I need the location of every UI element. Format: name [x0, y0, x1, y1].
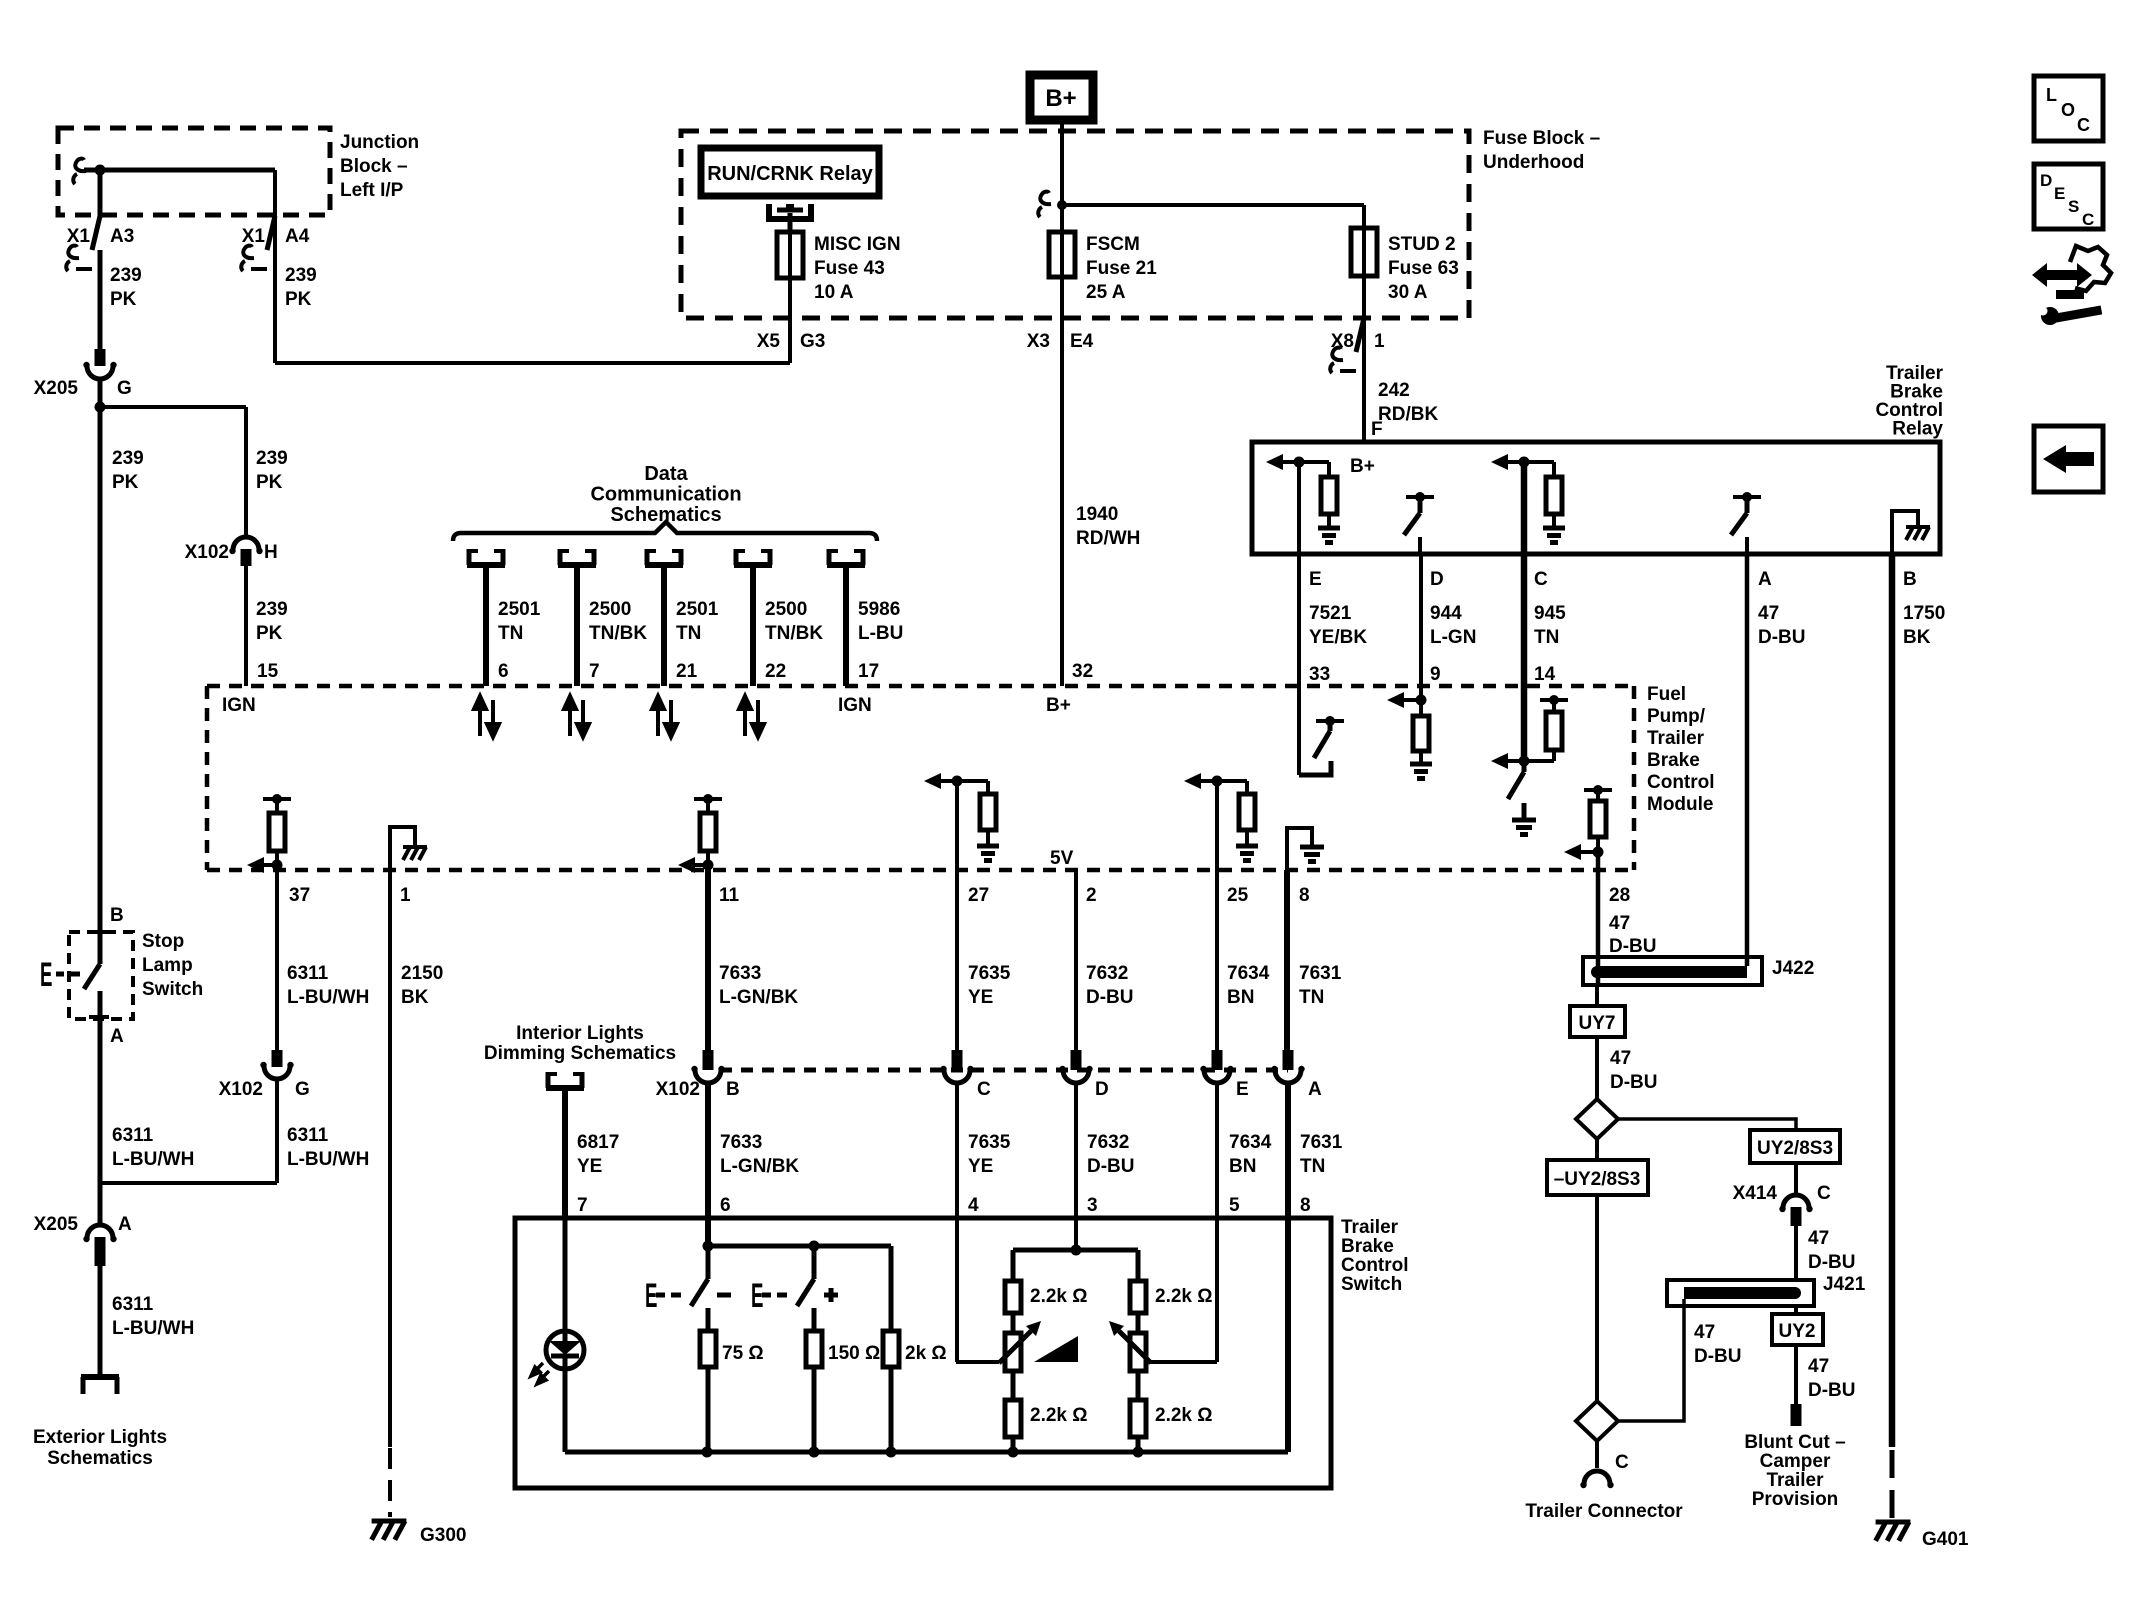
stub resistor-gnd C	[1552, 514, 1556, 528]
svg-text:X205: X205	[34, 378, 79, 399]
svg-text:C: C	[1817, 1183, 1831, 1204]
wire below X102 G	[275, 1078, 279, 1183]
stub resistor pin28	[1596, 837, 1600, 852]
wire inside stop lamp	[98, 932, 103, 964]
stub pin27 gnd	[986, 830, 990, 846]
option box UY2/8S3	[1750, 1130, 1840, 1163]
svg-text:6311: 6311	[112, 1294, 154, 1315]
svg-text:17: 17	[858, 661, 879, 682]
svg-text:27: 27	[968, 885, 989, 906]
wire into STUD2 fuse	[1362, 205, 1366, 228]
svg-text:2500: 2500	[589, 599, 631, 620]
svg-text:Trailer: Trailer	[1647, 728, 1705, 749]
in-line connector X102 H	[233, 537, 259, 550]
svg-text:J421: J421	[1823, 1274, 1866, 1295]
svg-text:B: B	[726, 1079, 740, 1100]
relay coil resistor (E)	[1321, 477, 1337, 514]
fork terminal data line 22	[734, 549, 772, 565]
svg-text:150 Ω: 150 Ω	[828, 1343, 880, 1364]
svg-text:TN: TN	[498, 623, 523, 644]
relay switch contact (D)	[1404, 492, 1434, 535]
E dashes stop lamp	[56, 972, 80, 977]
option box -UY2/8S3	[1547, 1160, 1648, 1195]
wire A4 to fuse43	[275, 361, 790, 365]
data arrows pin row x=745	[739, 696, 764, 737]
wire to 150 ohm	[812, 1308, 817, 1331]
resistor 2.2k lower-left	[1005, 1400, 1021, 1437]
junction dot rail2-75	[702, 1447, 713, 1458]
connector row dashed line	[720, 1068, 1288, 1073]
splice diamond S2	[1576, 1401, 1618, 1441]
chassis ground pin 1	[403, 847, 427, 860]
svg-text:Relay: Relay	[1892, 419, 1943, 440]
wire J421 to UY2	[1794, 1306, 1798, 1314]
svg-text:22: 22	[765, 661, 786, 682]
svg-text:L-GN/BK: L-GN/BK	[720, 1156, 799, 1177]
svg-text:UY2/8S3: UY2/8S3	[1757, 1138, 1833, 1159]
svg-text:PK: PK	[285, 289, 312, 310]
fuse STUD 2 Fuse 63	[1351, 228, 1377, 276]
floating contact pin 11	[694, 794, 722, 804]
svg-text:E: E	[751, 1276, 763, 1315]
wire coil E	[1283, 460, 1329, 464]
svg-text:PK: PK	[256, 472, 283, 493]
wire UY7 to splice diamond	[1595, 1037, 1599, 1099]
wire pin 28 down to J422	[1596, 852, 1601, 985]
fork terminal exterior lights	[81, 1377, 119, 1394]
connector B (switch harness)	[695, 1070, 721, 1083]
arrow line pin 14	[1508, 759, 1554, 763]
svg-text:Lamp: Lamp	[142, 955, 193, 976]
svg-text:C: C	[1534, 569, 1548, 590]
ground relay coil E	[1318, 528, 1340, 543]
svg-text:IGN: IGN	[838, 695, 872, 716]
svg-text:L-BU: L-BU	[858, 623, 903, 644]
svg-text:Stop: Stop	[142, 931, 184, 952]
svg-text:TN: TN	[1300, 1156, 1325, 1177]
wire 2.2kLR to rail	[1136, 1437, 1141, 1452]
junction dot pin 14	[1519, 756, 1530, 767]
svg-text:UY2: UY2	[1779, 1321, 1816, 1342]
connector stub X205-G	[95, 349, 106, 366]
svg-text:L: L	[2046, 85, 2057, 105]
dashed wire to G300	[388, 1448, 392, 1517]
wire 7633 into switch	[705, 1082, 711, 1246]
stub pin9 gnd	[1419, 751, 1423, 764]
plus switch blade	[797, 1279, 814, 1306]
Trailer Brake Control Relay box	[1252, 442, 1940, 554]
svg-text:239: 239	[256, 448, 288, 469]
svg-text:X3: X3	[1027, 331, 1050, 352]
potentiometer right	[1130, 1333, 1146, 1371]
module resistor pin 9	[1413, 716, 1429, 751]
wire pin 25 down	[1215, 781, 1219, 1050]
back arrow	[2043, 445, 2094, 473]
svg-text:BN: BN	[1229, 1156, 1256, 1177]
stop lamp switch blade	[84, 964, 100, 989]
connector stub (E)	[1212, 1050, 1223, 1070]
DESC legend box	[2034, 164, 2103, 229]
svg-text:S: S	[2068, 197, 2079, 216]
svg-text:BN: BN	[1227, 987, 1254, 1008]
data wire to pin 7	[574, 565, 580, 686]
wire 2150 BK down to G300	[388, 870, 392, 1447]
svg-text:47: 47	[1610, 1048, 1631, 1069]
svg-text:STUD 2: STUD 2	[1388, 234, 1456, 255]
junction dot rail2-2k	[886, 1447, 897, 1458]
svg-text:30 A: 30 A	[1388, 282, 1428, 303]
svg-text:Trailer: Trailer	[1766, 1470, 1824, 1491]
svg-text:Pump/: Pump/	[1647, 706, 1706, 727]
svg-text:2500: 2500	[765, 599, 807, 620]
svg-text:21: 21	[676, 661, 698, 682]
svg-text:1: 1	[1374, 331, 1385, 352]
ramp triangle	[1034, 1336, 1078, 1362]
data wire to pin 6	[483, 565, 489, 686]
svg-text:D-BU: D-BU	[1610, 1072, 1658, 1093]
svg-text:E: E	[1309, 569, 1322, 590]
svg-text:RD/BK: RD/BK	[1378, 404, 1438, 425]
svg-text:PK: PK	[256, 623, 283, 644]
in-line connector X414 C	[1783, 1195, 1809, 1208]
ground pin 27	[977, 846, 999, 861]
wire 7521 YE/BK	[1297, 554, 1301, 686]
svg-text:A: A	[118, 1214, 132, 1235]
ground pin 25	[1236, 846, 1258, 861]
svg-text:2501: 2501	[498, 599, 541, 620]
svg-text:A: A	[110, 1026, 124, 1047]
svg-text:Left I/P: Left I/P	[340, 180, 404, 201]
stub to resistor pin11	[706, 799, 710, 813]
svg-text:E: E	[40, 955, 52, 994]
junction dot rail-plus	[809, 1241, 820, 1252]
module switch blade pin 14	[1508, 772, 1524, 799]
wire below X205 G	[98, 378, 103, 407]
stop lamp switch dashed box	[69, 932, 133, 1019]
exchange/service icon	[2032, 263, 2092, 299]
svg-text:D-BU: D-BU	[1808, 1380, 1856, 1401]
hook X8-1	[1332, 348, 1343, 361]
arrow line pin 37	[264, 863, 277, 867]
fuse block underhood - dashed outline	[681, 131, 1469, 318]
svg-text:Fuse 63: Fuse 63	[1388, 258, 1459, 279]
svg-text:YE: YE	[968, 987, 993, 1008]
svg-text:47: 47	[1694, 1322, 1715, 1343]
stub to resistor pin14	[1552, 700, 1556, 712]
data wire to pin 22	[750, 565, 756, 686]
svg-text:Exterior Lights: Exterior Lights	[33, 1427, 167, 1448]
svg-text:L-GN/BK: L-GN/BK	[719, 987, 798, 1008]
svg-text:2150: 2150	[401, 963, 443, 984]
svg-text:MISC IGN: MISC IGN	[814, 234, 901, 255]
svg-text:7633: 7633	[720, 1132, 762, 1153]
minus sign	[717, 1293, 731, 1298]
svg-text:BK: BK	[401, 987, 429, 1008]
svg-text:33: 33	[1309, 664, 1330, 685]
wire 2kohm to rail	[889, 1367, 894, 1452]
floating contact pin 37	[263, 794, 291, 804]
wire pin 2 down	[1074, 870, 1078, 1050]
connector stub (A)	[1283, 1050, 1294, 1070]
connector stub X205-A	[95, 1237, 106, 1266]
svg-text:Brake: Brake	[1647, 750, 1700, 771]
svg-text:X102: X102	[185, 542, 229, 563]
wire minus switch upper	[706, 1246, 711, 1279]
svg-text:X1: X1	[67, 226, 91, 247]
stub to resistor pin28	[1596, 790, 1600, 801]
junction dot pin 25	[1212, 776, 1223, 787]
B+ power box	[1030, 75, 1093, 120]
svg-text:Data: Data	[644, 463, 688, 485]
resistor 2.2k lower-right	[1130, 1400, 1146, 1437]
LED indicator	[546, 1331, 584, 1369]
svg-text:25: 25	[1227, 885, 1249, 906]
wire 239 PK down to stop lamp switch	[98, 407, 103, 932]
connector stub X414-C	[1791, 1207, 1802, 1226]
svg-text:X205: X205	[34, 1214, 79, 1235]
wire relay pin C	[1521, 462, 1528, 554]
hook X1-A3	[68, 246, 79, 259]
svg-text:Junction: Junction	[340, 132, 419, 153]
wire UY2/8S3 to X414	[1794, 1163, 1798, 1196]
connector E (switch harness)	[1204, 1070, 1230, 1083]
junction dot relay E	[1294, 457, 1305, 468]
junction dot pin 28	[1593, 847, 1604, 858]
svg-text:A: A	[1308, 1079, 1322, 1100]
svg-text:2.2k Ω: 2.2k Ω	[1030, 1405, 1088, 1426]
chassis ground G300	[372, 1521, 407, 1540]
svg-text:239: 239	[112, 448, 144, 469]
junction dot branch	[95, 402, 106, 413]
data wire to pin 17	[843, 565, 849, 686]
svg-text:IGN: IGN	[222, 695, 256, 716]
svg-text:X102: X102	[219, 1079, 263, 1100]
ground pin 9	[1410, 764, 1432, 779]
svg-text:2.2k Ω: 2.2k Ω	[1030, 1286, 1088, 1307]
svg-text:E4: E4	[1070, 331, 1094, 352]
in-line connector X102 G	[264, 1066, 290, 1079]
svg-text:G300: G300	[420, 1525, 466, 1546]
svg-text:G3: G3	[800, 331, 825, 352]
wire LED to rail	[563, 1369, 568, 1452]
data arrows pin row x=480	[474, 696, 499, 737]
data wire to pin 21	[661, 565, 667, 686]
module resistor pin 27	[980, 794, 996, 830]
svg-text:15: 15	[257, 661, 279, 682]
svg-text:D-BU: D-BU	[1609, 936, 1657, 957]
wire to X102 G	[275, 1050, 279, 1066]
svg-text:10 A: 10 A	[814, 282, 854, 303]
svg-text:239: 239	[256, 599, 288, 620]
svg-text:E: E	[645, 1276, 657, 1315]
svg-text:Control: Control	[1647, 772, 1715, 793]
svg-text:7: 7	[577, 1195, 588, 1216]
wire pin14 internal	[1521, 686, 1528, 761]
wire 239 PK down	[98, 250, 103, 350]
svg-text:2.2k Ω: 2.2k Ω	[1155, 1286, 1213, 1307]
svg-text:Switch: Switch	[1341, 1274, 1402, 1295]
svg-text:X1: X1	[242, 226, 266, 247]
wire relay to fuse 43	[788, 213, 793, 232]
arrow line pin 25	[1201, 779, 1247, 783]
data comm brace	[453, 522, 877, 541]
wire A4 down	[273, 170, 277, 363]
E dashes plus	[762, 1293, 787, 1298]
svg-text:25 A: 25 A	[1086, 282, 1126, 303]
junction dot rail2-right pot	[1133, 1447, 1144, 1458]
arrow line pin 28	[1581, 850, 1598, 854]
svg-text:F: F	[1371, 419, 1383, 440]
wire diamond1 to -UY2/8S3	[1595, 1139, 1599, 1160]
wire 239 PK to module pin 15	[244, 566, 248, 686]
svg-text:Camper: Camper	[1760, 1451, 1831, 1472]
svg-text:Dimming Schematics: Dimming Schematics	[484, 1043, 676, 1064]
svg-text:B: B	[1903, 569, 1917, 590]
svg-text:D-BU: D-BU	[1758, 627, 1806, 648]
svg-text:YE: YE	[577, 1156, 602, 1177]
option box UY2	[1772, 1314, 1823, 1345]
svg-text:Underhood: Underhood	[1483, 152, 1584, 173]
Fuel Pump Trailer Brake Control Module dashed box	[207, 686, 1634, 870]
svg-text:Communication: Communication	[590, 484, 741, 506]
svg-text:Fuse Block –: Fuse Block –	[1483, 128, 1600, 149]
svg-text:D-BU: D-BU	[1694, 1346, 1742, 1367]
resistor 2.2k upper-right	[1130, 1281, 1146, 1313]
resistor 2.2k upper-left	[1005, 1281, 1021, 1313]
svg-text:7632: 7632	[1087, 1132, 1129, 1153]
wire pin 11 down	[705, 865, 711, 1050]
svg-text:Interior Lights: Interior Lights	[516, 1023, 644, 1044]
svg-text:D: D	[1430, 569, 1444, 590]
svg-text:32: 32	[1072, 661, 1093, 682]
module resistor pin 25	[1239, 794, 1255, 830]
svg-text:14: 14	[1534, 664, 1556, 685]
junction dot B+/STUD2	[1057, 200, 1067, 210]
wire J422 to UY7	[1595, 985, 1599, 1006]
stub resistor pin37	[275, 851, 279, 865]
svg-text:Provision: Provision	[1752, 1489, 1839, 1510]
wire UY2 to blunt cut	[1794, 1345, 1798, 1404]
svg-text:X102: X102	[656, 1079, 700, 1100]
wire pin 8 to internal ground	[1287, 828, 1312, 870]
svg-text:1: 1	[400, 885, 411, 906]
svg-text:A: A	[1758, 569, 1772, 590]
wire wiper to pin5	[1149, 1360, 1217, 1364]
wire relay pin B to ground	[1892, 511, 1918, 554]
svg-text:L-BU/WH: L-BU/WH	[112, 1149, 194, 1170]
hook at FSCM junction	[1040, 192, 1051, 205]
wire to STUD 2 fuse	[1062, 203, 1364, 207]
fork terminal data line 6	[467, 549, 505, 565]
wire branch right	[100, 405, 246, 409]
svg-text:X5: X5	[757, 331, 781, 352]
svg-text:Switch: Switch	[142, 979, 203, 1000]
wire diamond2 to trailer connector	[1595, 1441, 1599, 1468]
splice diamond S1	[1576, 1099, 1618, 1139]
wire pin 1 to internal ground	[390, 827, 415, 870]
connector D (switch harness)	[1063, 1070, 1089, 1083]
junction dot relay C	[1519, 457, 1530, 468]
svg-text:239: 239	[285, 265, 317, 286]
wire B+ down	[1060, 120, 1064, 232]
wire 239 PK to X102 H	[244, 407, 248, 538]
svg-text:UY7: UY7	[1579, 1013, 1616, 1034]
module switch contact (pin 33)	[1299, 716, 1344, 775]
resistor 150 ohm	[806, 1331, 822, 1367]
svg-text:Brake: Brake	[1341, 1236, 1394, 1257]
in-line connector X205 G	[87, 366, 113, 379]
svg-text:C: C	[1615, 1452, 1629, 1473]
tick X8-1	[1340, 369, 1356, 373]
svg-text:Fuse 43: Fuse 43	[814, 258, 885, 279]
wire diamond to UY2/8S3	[1618, 1119, 1796, 1130]
junction dot pin 11	[703, 860, 714, 871]
svg-text:Trailer: Trailer	[1341, 1217, 1399, 1238]
back-arrow legend box	[2034, 426, 2103, 492]
svg-text:–UY2/8S3: –UY2/8S3	[1554, 1169, 1641, 1190]
splice pack J422	[1583, 957, 1762, 985]
svg-text:6: 6	[498, 661, 509, 682]
arrow left pin 25	[1184, 773, 1201, 789]
wire to 2k	[889, 1246, 894, 1331]
blunt cut stub	[1791, 1404, 1802, 1426]
potentiometer left	[1005, 1333, 1021, 1371]
svg-text:YE/BK: YE/BK	[1309, 627, 1367, 648]
svg-text:945: 945	[1534, 603, 1566, 624]
svg-text:B+: B+	[1046, 695, 1071, 716]
svg-text:47: 47	[1808, 1228, 1829, 1249]
svg-text:BK: BK	[1903, 627, 1931, 648]
minus switch blade	[691, 1279, 708, 1306]
svg-text:6311: 6311	[287, 963, 329, 984]
arrow left pin 11	[678, 857, 695, 873]
junction dot J422	[1591, 966, 1603, 978]
svg-text:1940: 1940	[1076, 504, 1118, 525]
connector stub X102-H	[241, 549, 252, 566]
junction block - dashed outline	[58, 128, 330, 215]
relay coil resistor (C)	[1546, 477, 1562, 514]
wire pin 27 down	[955, 781, 959, 1050]
svg-text:G: G	[295, 1079, 310, 1100]
svg-text:C: C	[2077, 115, 2090, 135]
svg-text:47: 47	[1609, 913, 1630, 934]
svg-text:E: E	[1236, 1079, 1249, 1100]
wire to resistor pin27	[986, 781, 990, 794]
LED emission arrows	[531, 1363, 549, 1384]
junction dot pin 9	[1416, 695, 1427, 706]
in-line connector X205 A	[87, 1225, 113, 1238]
svg-text:239: 239	[110, 265, 142, 286]
fork terminal data line 21	[645, 549, 683, 565]
module resistor pin 28	[1590, 801, 1606, 837]
fuse MISC IGN Fuse 43	[777, 232, 803, 278]
svg-text:6817: 6817	[577, 1132, 619, 1153]
connector A (switch harness)	[1275, 1070, 1301, 1083]
switch bottom rail	[565, 1450, 1288, 1455]
svg-text:6: 6	[720, 1195, 731, 1216]
svg-text:D: D	[1095, 1079, 1109, 1100]
wire 1750 BK to G401	[1889, 554, 1896, 1447]
svg-text:X8: X8	[1331, 331, 1354, 352]
svg-text:PK: PK	[110, 289, 137, 310]
arrow left pin 27	[924, 773, 941, 789]
fork terminal data line 17	[827, 549, 865, 565]
svg-text:37: 37	[289, 885, 310, 906]
svg-text:Fuse 21: Fuse 21	[1086, 258, 1157, 279]
plus sign	[824, 1288, 838, 1302]
RUN/CRNK relay output terminal	[769, 204, 811, 219]
svg-text:944: 944	[1430, 603, 1462, 624]
